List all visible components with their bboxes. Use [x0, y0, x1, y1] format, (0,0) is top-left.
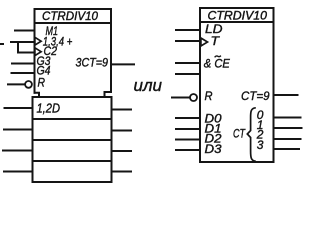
wire input M1	[15, 30, 35, 32]
wire input D row2	[4, 129, 33, 131]
wire output Q row4	[112, 171, 132, 173]
wire output bit0	[274, 117, 301, 119]
svg-text:3CT=9: 3CT=9	[76, 56, 109, 70]
wire input D0	[176, 117, 200, 119]
wire input D row1	[5, 107, 33, 109]
wire output bit1	[274, 127, 302, 129]
wire output bit3	[274, 148, 300, 150]
svg-text:R: R	[38, 76, 46, 90]
svg-text:R: R	[205, 89, 213, 103]
wire input T	[176, 40, 200, 42]
wire input D1	[176, 128, 200, 130]
wire input CE1	[176, 62, 200, 64]
wire input D2	[176, 139, 200, 141]
wire input D row3	[3, 150, 33, 152]
svg-text:D3: D3	[205, 142, 222, 156]
wire output Q row2	[112, 130, 132, 132]
counter U1 register section box 1,2D	[33, 97, 112, 182]
wire output Q row1	[112, 109, 132, 111]
dynamic input triangle C2	[35, 48, 41, 56]
svg-text:CTRDIV10: CTRDIV10	[42, 11, 99, 23]
wire input R	[8, 83, 25, 85]
negation bubble R (U2)	[190, 94, 197, 101]
counter U2 body box	[200, 8, 274, 162]
negation bubble R (U1)	[25, 81, 32, 88]
wire input 1,3,4+	[11, 41, 35, 43]
counter U1 register row divider 1	[33, 118, 112, 120]
counter U1 common control block outline	[35, 9, 112, 97]
counter U1 header separator line	[35, 22, 112, 24]
svg-text:CT=9: CT=9	[241, 89, 270, 103]
wire input R2	[172, 97, 190, 99]
svg-text:3: 3	[257, 138, 264, 152]
wire input G4	[12, 72, 35, 74]
wire input CE2	[176, 73, 200, 75]
wire stub left edge	[0, 43, 3, 45]
counter U1 register row divider 2	[33, 139, 112, 141]
wire fork to C2	[18, 42, 35, 53]
wire output bit2	[274, 138, 301, 140]
output brace	[247, 108, 256, 161]
svg-text:CTRDIV10: CTRDIV10	[208, 11, 268, 23]
wire input D3	[176, 149, 200, 151]
counter U1 control block bottom-left notch	[35, 93, 40, 97]
dynamic input triangle 1,3,4+	[35, 37, 41, 45]
wire output CT=9	[274, 94, 298, 96]
svg-text:& CE: & CE	[204, 57, 231, 71]
svg-text:CT: CT	[233, 127, 246, 141]
wire input G3	[12, 63, 35, 65]
counter U2 header separator line	[200, 21, 274, 23]
wire input LD	[176, 29, 200, 31]
wire input D row4	[4, 171, 33, 173]
svg-text:или: или	[134, 76, 163, 95]
counter U1 register row divider 3	[33, 160, 112, 162]
dynamic input triangle T	[201, 38, 208, 46]
svg-text:1,2D: 1,2D	[37, 100, 61, 115]
wire output Q row3	[112, 150, 132, 152]
wire output 3CT=9	[111, 63, 134, 65]
tilde over C of CE	[215, 56, 221, 58]
